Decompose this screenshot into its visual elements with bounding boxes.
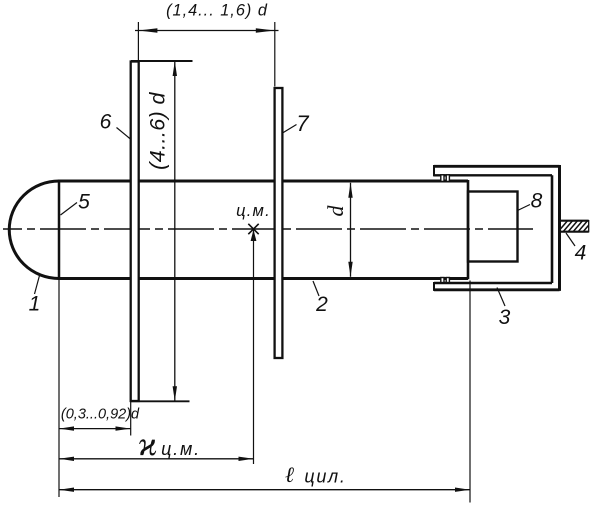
nose/cylinder joint line 5 xyxy=(58,180,61,279)
bracket 3 bottom flange xyxy=(434,288,560,291)
dimension (1,4...1,6)d extension lines xyxy=(137,22,139,60)
leader 7 xyxy=(283,125,297,134)
cylinder body 2 bottom edge xyxy=(58,277,468,280)
dimension (4...6)d line xyxy=(174,61,176,401)
nose cone 1 (dome) xyxy=(9,181,59,279)
bracket 3 top flange xyxy=(434,165,560,168)
svg-text:ц.м.: ц.м. xyxy=(236,202,271,220)
mounting tabs top xyxy=(441,175,444,182)
dimension (0,3...0,92)d line xyxy=(59,428,131,430)
mounting tabs bottom xyxy=(441,278,444,283)
extension below fin 6 xyxy=(130,401,132,435)
svg-text:7: 7 xyxy=(296,111,309,136)
fin plate 7 xyxy=(275,88,283,358)
leader 2 xyxy=(313,281,319,296)
rear box 8 xyxy=(468,192,518,262)
leader 6 xyxy=(117,128,132,140)
svg-text:8: 8 xyxy=(531,190,543,213)
centerline axis xyxy=(3,228,533,230)
center of mass cross mark xyxy=(248,224,258,234)
svg-text:4: 4 xyxy=(575,242,587,265)
leader 1 xyxy=(35,276,40,295)
dimension (1,4...1,6)d line xyxy=(135,30,279,32)
shaft 4 hatched xyxy=(557,219,592,233)
svg-text:2: 2 xyxy=(315,293,328,316)
extension at cylinder end xyxy=(469,281,471,503)
dimension (4...6)d ticks xyxy=(131,60,193,62)
svg-text:цил.: цил. xyxy=(304,467,346,487)
dimension l cyl line xyxy=(59,489,470,491)
svg-text:ℓ: ℓ xyxy=(285,462,295,487)
svg-text:ϰ: ϰ xyxy=(138,426,157,463)
svg-text:5: 5 xyxy=(78,191,90,214)
cylinder body 2 top edge xyxy=(58,180,468,183)
leader 4 xyxy=(566,233,575,246)
svg-text:(1,4... 1,6) d: (1,4... 1,6) d xyxy=(166,2,268,20)
fin plate 6 xyxy=(131,62,139,402)
svg-text:(4...6) d: (4...6) d xyxy=(146,92,170,170)
dimension d line xyxy=(350,183,352,277)
center of mass extension line xyxy=(253,230,255,464)
cylinder end face xyxy=(467,180,470,279)
leader 8 xyxy=(518,205,531,211)
dimension x c.m. line xyxy=(59,458,254,460)
svg-text:d: d xyxy=(323,205,348,217)
svg-text:1: 1 xyxy=(29,293,41,316)
svg-text:3: 3 xyxy=(499,306,511,329)
svg-text:(0,3...0,92)d: (0,3...0,92)d xyxy=(61,407,140,423)
leader 3 xyxy=(497,288,505,307)
left extension line from joint xyxy=(58,280,60,498)
leader 5 xyxy=(61,203,78,216)
svg-text:ц.м.: ц.м. xyxy=(161,439,201,459)
bracket 3 right wall xyxy=(558,165,561,291)
svg-text:6: 6 xyxy=(100,111,112,134)
